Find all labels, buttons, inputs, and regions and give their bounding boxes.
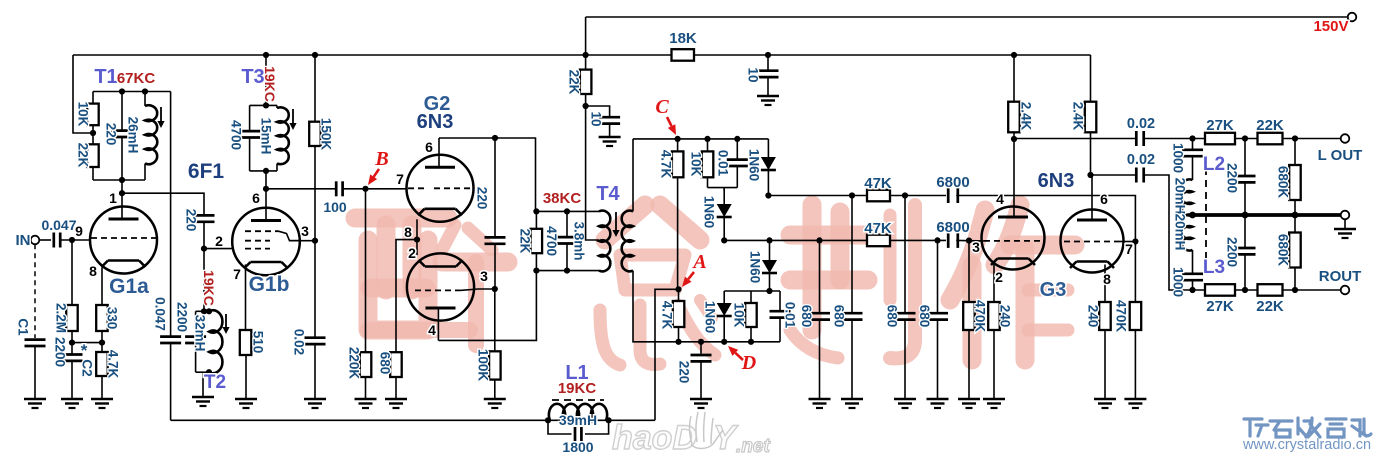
svg-text:100K: 100K [476, 349, 491, 382]
resistor 100K [476, 289, 506, 408]
svg-text:4700: 4700 [544, 226, 559, 256]
resistor 150K [309, 55, 333, 241]
svg-text:3: 3 [972, 239, 980, 255]
label G1a [109, 275, 149, 298]
wire: plate1 to 0.02 [1014, 138, 1136, 140]
svg-text:2.2M: 2.2M [54, 303, 69, 333]
wire: plate2 to 0.02 [1091, 174, 1137, 176]
svg-text:680: 680 [378, 352, 393, 375]
svg-text:220: 220 [104, 123, 119, 146]
wire: common ground rail [1189, 212, 1341, 219]
wire: cathode junction row [69, 340, 105, 346]
tube G2a [407, 138, 474, 240]
svg-text:22K: 22K [567, 70, 582, 95]
svg-text:22K: 22K [518, 229, 533, 254]
svg-text:L OUT: L OUT [1318, 147, 1363, 164]
svg-text:1N60: 1N60 [747, 149, 762, 181]
svg-text:T4: T4 [596, 183, 620, 205]
wire: supply to T3 [263, 55, 269, 109]
capacitor 1000 L3 [1171, 250, 1204, 297]
wire: G2 cathodes junction [414, 237, 420, 243]
svg-text:220: 220 [475, 187, 490, 210]
wire: T1 top [93, 88, 171, 94]
resistor 2.4K right [1071, 55, 1097, 178]
svg-text:27K: 27K [1206, 117, 1234, 134]
svg-text:10: 10 [589, 111, 604, 126]
resistor 470K left [958, 241, 988, 408]
resistor 470K right [1114, 242, 1147, 409]
inductor T4 secondary [622, 211, 633, 272]
label pin 9 [75, 223, 83, 239]
svg-text:.net: .net [736, 436, 770, 457]
svg-text:1000: 1000 [1171, 267, 1186, 297]
resistor 680 G2 [378, 352, 408, 408]
svg-text:220: 220 [677, 361, 692, 384]
svg-text:T1: T1 [94, 66, 117, 88]
svg-text:4.7K: 4.7K [660, 301, 675, 330]
svg-text:1N60: 1N60 [702, 196, 717, 228]
svg-text:3: 3 [480, 268, 488, 284]
wire: cathodes to 680 [396, 240, 417, 353]
label pin 4 G2 [428, 322, 436, 338]
capacitor 0.047 T2 [153, 297, 182, 420]
svg-text:www.crystalradio.cn: www.crystalradio.cn [1242, 437, 1371, 453]
label pin 6 G2 [425, 139, 433, 155]
tube G3a [982, 139, 1045, 302]
svg-text:240: 240 [1086, 305, 1101, 328]
capacitor 220 detector [677, 342, 713, 408]
wire: pilot bus bottom [171, 417, 655, 423]
tube G2b [407, 240, 495, 341]
svg-text:6: 6 [1100, 191, 1108, 207]
svg-text:*: * [81, 341, 88, 360]
svg-text:39mH: 39mH [559, 412, 597, 428]
svg-text:19KC: 19KC [558, 380, 597, 397]
tube G3b [1061, 175, 1124, 302]
svg-text:1800: 1800 [562, 439, 593, 455]
resistor 10K [76, 92, 99, 137]
svg-text:2: 2 [995, 269, 1003, 285]
terminal ROUT [1319, 268, 1362, 294]
svg-text:680K: 680K [1276, 166, 1291, 199]
svg-text:C2: C2 [80, 359, 95, 376]
svg-text:8: 8 [404, 224, 412, 240]
svg-text:6N3: 6N3 [417, 111, 454, 133]
capacitor 4700 tank [544, 211, 578, 270]
capacitor 0.02 bottom [1127, 152, 1155, 183]
wire: 10K/0.01 joint [708, 188, 738, 191]
svg-text:6800: 6800 [936, 219, 969, 236]
svg-text:19KC: 19KC [262, 66, 278, 102]
node A [682, 251, 707, 287]
wire: top bus to G3b grid [956, 196, 1135, 242]
svg-text:680: 680 [885, 305, 900, 328]
svg-text:G3: G3 [1040, 279, 1067, 301]
wire: tank top rail [533, 208, 599, 214]
inductor L2 20mH [1173, 154, 1226, 216]
svg-text:B: B [374, 148, 388, 170]
svg-text:470K: 470K [973, 300, 988, 333]
svg-text:G1a: G1a [109, 275, 149, 298]
svg-text:680: 680 [917, 305, 932, 328]
node C [655, 96, 676, 135]
capacitor 0.02 G1b [292, 241, 327, 408]
wire: G1b grid node [201, 246, 232, 252]
svg-text:0.047: 0.047 [41, 217, 76, 233]
label pin 6 G3 [1100, 191, 1108, 207]
svg-text:A: A [691, 251, 706, 273]
svg-text:10K: 10K [732, 303, 747, 328]
label T3 19KC [241, 66, 278, 102]
capacitor 1000 L2 [1171, 139, 1204, 181]
svg-text:6N3: 6N3 [1038, 170, 1075, 192]
wire: T4 sec top to C bus [632, 139, 634, 212]
label 38KC [543, 190, 582, 207]
node D [728, 346, 756, 374]
node B [368, 148, 389, 185]
terminal 150V [1313, 13, 1356, 35]
svg-text:15mH: 15mH [259, 118, 274, 155]
label T2 [204, 372, 226, 393]
svg-text:26mH: 26mH [126, 117, 141, 154]
svg-text:0.02: 0.02 [292, 329, 307, 355]
svg-text:32mH: 32mH [193, 315, 208, 352]
svg-text:6F1: 6F1 [188, 160, 225, 183]
svg-text:0.01: 0.01 [716, 150, 731, 177]
svg-text:38KC: 38KC [543, 190, 582, 207]
wire: G1a plate to T1 [119, 180, 125, 207]
wire: supply to T1 divider [73, 55, 93, 133]
svg-text:4: 4 [428, 322, 436, 338]
svg-text:6: 6 [425, 139, 433, 155]
svg-text:220K: 220K [347, 347, 362, 380]
svg-text:10: 10 [746, 67, 761, 82]
resistor 680K top [1276, 139, 1301, 216]
svg-text:L3: L3 [1203, 257, 1225, 278]
svg-text:47K: 47K [864, 175, 892, 192]
svg-text:1N60: 1N60 [748, 251, 763, 283]
capacitor 220 G2 [475, 138, 506, 289]
capacitor 0.01 lower [770, 291, 798, 342]
svg-text:ROUT: ROUT [1319, 268, 1362, 285]
wire: T4 sec bottom to D row [633, 271, 780, 345]
diode 1N60 d2 [702, 188, 732, 240]
resistor 2.2M [54, 240, 78, 343]
resistor 220K [347, 189, 377, 408]
label T4 [596, 183, 620, 205]
label pin 6 [252, 190, 260, 206]
diode 1N60 d4 [703, 291, 732, 342]
label pin 8 G2 [404, 224, 412, 240]
resistor 4.7K upper [659, 139, 684, 289]
svg-text:4.7K: 4.7K [659, 150, 674, 179]
resistor 18K [669, 30, 697, 61]
label pin 3 G2 [480, 268, 488, 284]
wire: G3b grid entry [1120, 238, 1139, 244]
svg-text:100: 100 [323, 199, 347, 215]
resistor 680K bottom [1276, 215, 1301, 290]
wire: bottom bus [721, 237, 946, 243]
svg-text:22K: 22K [1256, 117, 1284, 134]
label pin 8 [89, 263, 97, 279]
svg-text:7: 7 [1125, 241, 1133, 257]
wire: A node to L1 [655, 289, 679, 420]
svg-text:G1b: G1b [249, 273, 290, 296]
svg-text:2.4K: 2.4K [1071, 102, 1086, 131]
capacitor 4700 T3 [229, 105, 261, 170]
svg-text:7: 7 [396, 171, 404, 187]
capacitor 1800 [548, 420, 609, 455]
svg-text:150K: 150K [319, 118, 334, 151]
inductor T4 primary [599, 211, 620, 272]
svg-text:47K: 47K [864, 220, 892, 237]
wire: G2 plate2 to tank bottom [438, 271, 536, 341]
capacitor 680 #4 [917, 240, 949, 408]
svg-text:8: 8 [1103, 271, 1111, 287]
svg-text:22K: 22K [76, 143, 91, 168]
wire: top bus [765, 192, 946, 198]
svg-text:2: 2 [215, 233, 223, 249]
inductor L3 20mH [1173, 214, 1226, 278]
label pin 4 G3 [996, 191, 1004, 207]
capacitor 680 #2 [832, 196, 864, 409]
label G1b [249, 273, 290, 296]
svg-text:2200: 2200 [1225, 163, 1240, 193]
svg-text:4.7K: 4.7K [106, 350, 121, 379]
resistor 4.7K lower [660, 286, 685, 342]
wire: T1 to 0.047 pilot takeoff [170, 92, 172, 337]
svg-text:C: C [655, 96, 669, 118]
svg-text:2: 2 [408, 245, 416, 261]
label L1 19KC [558, 362, 597, 397]
wire: L rail [1144, 135, 1341, 141]
watermark: haoDIY.net logo [612, 412, 770, 457]
wire: 0.02 to R rail [1144, 175, 1193, 290]
svg-text:220: 220 [184, 209, 199, 232]
label 6N3 G3 [1038, 170, 1075, 192]
capacitor 680 #1 [799, 240, 831, 408]
capacitor 220 coupling [184, 209, 215, 249]
svg-text:680: 680 [832, 305, 847, 328]
svg-text:4: 4 [996, 191, 1004, 207]
wire: T3 bottom rail [250, 168, 277, 174]
svg-text:0.01: 0.01 [783, 302, 798, 329]
svg-text:18K: 18K [669, 30, 697, 47]
label pin 1 [109, 190, 117, 206]
tube G1a [90, 207, 157, 306]
diode 1N60 d1 [747, 139, 776, 196]
svg-text:7: 7 [233, 266, 241, 282]
label pin 8 G3 [1103, 271, 1111, 287]
label G3 [1040, 279, 1067, 301]
svg-text:1N60: 1N60 [703, 301, 718, 333]
inductor 15mH T3 [259, 105, 297, 170]
svg-text:0.02: 0.02 [1127, 152, 1155, 168]
label pin 7 G3 [1125, 241, 1133, 257]
svg-text:19KC: 19KC [201, 270, 217, 306]
label pin 3 [301, 223, 309, 239]
capacitor 2200 C2 [53, 337, 95, 408]
wire: T2 top rail [196, 308, 212, 314]
capacitor 2200 T2 [175, 302, 207, 372]
svg-text:IN: IN [16, 232, 31, 249]
capacitor 6800 top [936, 174, 969, 203]
wire: bottom bus to G3a grid [956, 238, 984, 244]
resistor 22K top [1256, 117, 1284, 144]
diode 1N60 d3 [748, 240, 778, 294]
wire: T3 top rail [250, 104, 277, 106]
label pin 2 [215, 233, 223, 249]
wire: plate to 220 coupling [122, 193, 204, 215]
resistor 240 right [1086, 302, 1117, 408]
svg-text:2200: 2200 [175, 302, 190, 332]
svg-text:20mH: 20mH [1173, 178, 1188, 215]
svg-text:20mH: 20mH [1173, 214, 1188, 251]
svg-text:0.047: 0.047 [153, 297, 168, 331]
wire: grid node to T2 [203, 249, 205, 312]
resistor 22K T1 [76, 133, 99, 180]
wire: B+ top rail to 150V [586, 16, 1348, 18]
svg-text:C1: C1 [16, 318, 31, 336]
label pin 7 [233, 266, 241, 282]
wire: B+ to T4 primary CT [586, 106, 599, 240]
wire: supply rail y55 right of 18K [694, 52, 1091, 58]
capacitor 680 #3 [885, 196, 917, 409]
resistor 22K tank [518, 211, 543, 270]
svg-text:680K: 680K [1276, 234, 1291, 267]
wire: B+ rail drop [585, 17, 587, 55]
svg-text:6800: 6800 [936, 174, 969, 191]
svg-text:150V: 150V [1313, 18, 1348, 35]
wire: G2 plate1 to tank [439, 135, 536, 212]
capacitor C1 (dashed option) [16, 244, 47, 408]
label 6F1 [188, 160, 225, 183]
wire: G1b plate junction [290, 238, 319, 244]
svg-text:0.02: 0.02 [1127, 116, 1155, 132]
svg-text:6: 6 [252, 190, 260, 206]
wire: supply rail y55 left of 18K [73, 52, 672, 58]
svg-text:8: 8 [89, 263, 97, 279]
wire: R rail [1189, 287, 1340, 293]
resistor 22K filter [567, 55, 592, 109]
wire: lower block top row [724, 290, 780, 292]
svg-text:3.8mh: 3.8mh [572, 221, 587, 260]
resistor 510 [235, 330, 266, 408]
svg-text:240: 240 [998, 305, 1013, 328]
label pin 7 G2 [396, 171, 404, 187]
svg-text:27K: 27K [1206, 298, 1234, 315]
svg-text:3: 3 [301, 223, 309, 239]
terminal L OUT [1318, 134, 1363, 164]
svg-text:680: 680 [799, 305, 814, 328]
svg-text:470K: 470K [1114, 300, 1129, 333]
wire: tank bottom rail [533, 268, 599, 274]
wire: T2 bottom to ground [192, 372, 214, 406]
capacitor 0.01 upper [716, 139, 748, 188]
label 3.8mh [572, 221, 587, 260]
inductor 26mH T1 [126, 92, 165, 181]
terminal ground [1334, 211, 1356, 238]
svg-text:T2: T2 [204, 372, 226, 393]
resistor 22K bottom [1256, 284, 1284, 315]
terminal IN [16, 232, 40, 249]
inductor L1 39mH [549, 400, 607, 428]
capacitor 2200 bottom [1225, 215, 1256, 290]
svg-text:2200: 2200 [1225, 237, 1240, 267]
svg-text:T3: T3 [241, 66, 264, 88]
label T1 67KC [94, 66, 155, 88]
wire: C bus [633, 136, 768, 142]
resistor 27K bottom [1205, 284, 1235, 315]
wire: B node to G2 grid [343, 186, 407, 192]
wire: pin6 node to 100 cap [263, 186, 336, 192]
resistor 27K top [1205, 117, 1235, 144]
watermark: crystalradio.cn [1242, 418, 1371, 453]
resistor 240 left [983, 302, 1013, 408]
svg-text:haoD: haoD [612, 419, 697, 457]
svg-text:1000: 1000 [1171, 143, 1186, 173]
resistor 47K top [864, 175, 892, 201]
label pin 2 G3 [995, 269, 1003, 285]
svg-text:67KC: 67KC [117, 70, 156, 87]
label pin 2 G2 [408, 245, 416, 261]
capacitor 0.02 top [1127, 116, 1155, 146]
svg-text:1: 1 [109, 190, 117, 206]
capacitor 100 [323, 181, 347, 215]
svg-text:510: 510 [251, 331, 266, 354]
svg-text:4700: 4700 [229, 120, 244, 150]
resistor 10K lower [732, 291, 757, 342]
capacitor 220 T1 [104, 92, 133, 181]
watermark: pink brush characters [355, 205, 1075, 365]
resistor 2.4K left [1008, 55, 1033, 142]
svg-text:2200: 2200 [53, 337, 68, 367]
capacitor 10 filter [586, 106, 621, 146]
svg-text:10K: 10K [76, 102, 91, 127]
capacitor 10 decouple [746, 55, 780, 105]
label 19KC T2 [201, 270, 217, 306]
svg-text:2.4K: 2.4K [1019, 102, 1034, 131]
label pin 3 G3 [972, 239, 980, 255]
capacitor 0.047 input [39, 217, 90, 248]
label G2 6N3 [417, 93, 454, 133]
wire: T1 bottom [93, 177, 145, 183]
resistor 330 [96, 305, 119, 343]
wire: G2 grid2 node [492, 286, 498, 292]
svg-text:330: 330 [105, 307, 120, 330]
resistor 4.7K cathode [91, 343, 121, 408]
tube G1b [232, 171, 300, 330]
svg-text:10K: 10K [689, 152, 704, 177]
svg-text:D: D [741, 352, 756, 374]
resistor 47K bottom [864, 220, 892, 246]
inductor 32mH T2 [193, 310, 230, 375]
capacitor 2200 top [1225, 139, 1256, 216]
svg-text:22K: 22K [1256, 298, 1284, 315]
svg-text:L2: L2 [1203, 154, 1225, 175]
resistor 10K upper [689, 139, 714, 188]
capacitor 6800 bottom [936, 219, 969, 248]
